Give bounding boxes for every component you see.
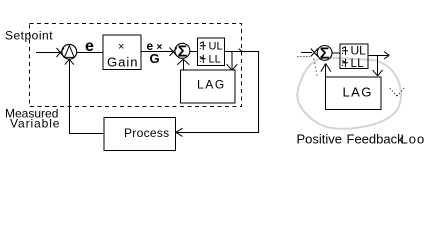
controller boundary dashed box xyxy=(30,24,242,107)
arrowhead down into LAG xyxy=(227,64,238,70)
wire summer S to limiter xyxy=(190,51,197,53)
svg-text:Process: Process xyxy=(124,126,169,140)
dotted input continuation xyxy=(298,56,311,58)
wire branch down into LAG xyxy=(231,51,233,69)
svg-text:LL: LL xyxy=(351,56,365,70)
block limiter UL/LL xyxy=(197,38,224,66)
svg-text:Feedback: Feedback xyxy=(347,132,405,147)
arrowhead into summer S (x style) xyxy=(170,48,178,57)
arrowhead up into summer S xyxy=(177,59,189,65)
dotted direction arrowhead on ellipse xyxy=(389,88,405,97)
block Process xyxy=(104,118,175,151)
wire inset summer to inset limiter xyxy=(332,52,340,54)
summing junction A (delta) xyxy=(62,44,77,59)
wire LAG up to summer S xyxy=(182,60,184,70)
svg-text:Setpoint: Setpoint xyxy=(5,29,53,43)
inset input wire xyxy=(301,51,312,53)
highlight ellipse xyxy=(297,57,401,128)
block Gain xyxy=(103,35,141,70)
svg-text:LAG: LAG xyxy=(197,78,226,92)
svg-text:LL: LL xyxy=(209,54,221,66)
svg-text:Variable: Variable xyxy=(10,117,60,131)
wire Gain to summer S xyxy=(141,51,173,53)
arrowhead into summer A (x style) xyxy=(57,48,65,57)
inset arrowhead down into LAG xyxy=(373,70,383,76)
inset limit symbol UL xyxy=(342,47,348,56)
block inset LAG xyxy=(326,77,382,110)
wire limiter output right then down to process xyxy=(177,51,259,132)
junction tick xyxy=(239,49,243,52)
limit symbol LL xyxy=(200,55,206,64)
svg-text:LAG: LAG xyxy=(343,84,373,99)
arrowhead into inset summer (x style) xyxy=(311,49,318,57)
inset branch down into LAG xyxy=(377,55,379,75)
svg-text:Positive: Positive xyxy=(297,132,343,147)
svg-text:Loo: Loo xyxy=(401,132,426,147)
svg-text:×: × xyxy=(118,41,124,53)
inset summer (sigma) xyxy=(317,46,332,61)
inset wire LAG up to summer xyxy=(325,64,327,77)
svg-text:Gain: Gain xyxy=(107,55,138,70)
svg-text:Σ: Σ xyxy=(320,46,330,63)
wire setpoint to summer xyxy=(36,52,60,54)
inset arrowhead up into summer xyxy=(321,64,331,72)
block inset limiter UL/LL xyxy=(340,44,368,68)
dotted continuation below inset summer xyxy=(314,59,317,76)
inset output wire with arrow xyxy=(368,54,388,56)
summing junction S (sigma) xyxy=(175,43,190,58)
inset output arrowhead right xyxy=(384,52,389,59)
svg-text:UL: UL xyxy=(209,41,223,53)
svg-text:G: G xyxy=(150,51,160,66)
svg-text:Σ: Σ xyxy=(178,44,188,61)
inset limit symbol LL xyxy=(342,59,348,68)
wire summer A to Gain xyxy=(77,52,103,54)
arrowhead into process right xyxy=(176,128,183,136)
arrowhead up into summer A xyxy=(65,59,74,64)
limit symbol UL xyxy=(200,42,206,51)
block LAG xyxy=(181,70,236,103)
wire process output left and up to summer A xyxy=(70,61,105,134)
